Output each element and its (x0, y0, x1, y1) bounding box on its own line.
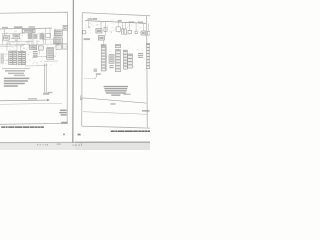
wire web horizontal runs (2, 32, 25, 34)
doc number block bottom right (60, 110, 67, 111)
connector P5 box (56, 45, 61, 49)
fuse block F1 cluster (28, 33, 33, 39)
terminal board TB1 pin list (33, 51, 38, 52)
wire bottom collect rail (2, 67, 30, 69)
wire destination label (28, 98, 37, 99)
relay K1 box (22, 29, 35, 33)
rail label 2 (92, 18, 97, 20)
AC PWR label (124, 94, 131, 95)
fine wire texture right diagram (85, 18, 147, 69)
note box N1 (63, 25, 67, 30)
caption: Figure 7. Wiring Diagram/Schematic (Sheet 6 of 9) (1, 126, 44, 127)
switch S1 box (4, 36, 10, 40)
wire stubs from bus (88, 21, 90, 29)
connector J14 pin column (146, 43, 150, 69)
switch S1 text (4, 37, 8, 39)
splice S2 marks (43, 93, 49, 95)
label above top rail 2 (14, 26, 23, 28)
wire number label (111, 103, 116, 104)
wire vertical run (106, 46, 108, 71)
terminal board TB1 text (30, 46, 35, 48)
relay K11 box (98, 36, 104, 40)
diagram area bottom rule (0, 102, 62, 105)
rail label 5 (138, 22, 143, 24)
capacitor C1 box (135, 31, 137, 34)
switch S10 box (83, 30, 86, 34)
connector J2 pin column (18, 51, 22, 65)
edge component box (147, 31, 150, 35)
note box N2 (54, 30, 62, 36)
long wire run across sheet bottom (81, 95, 147, 103)
right page border frame (82, 13, 150, 128)
bus wire, right diagram top rail (85, 21, 146, 24)
ground label (84, 38, 90, 40)
resistor R1 box (46, 33, 51, 37)
ground wire run (84, 78, 95, 80)
connector J0 half column (1, 53, 4, 64)
note text block lower left (4, 78, 30, 80)
resistor R12 box (128, 30, 132, 33)
circuit breaker CB1 text (14, 35, 19, 37)
label above top rail 1 (2, 27, 8, 28)
circuit breaker CB1 box (13, 34, 20, 39)
relay K3 cluster (40, 33, 45, 39)
rail label 3 (118, 20, 122, 22)
note box N3 (54, 38, 63, 44)
terminal board TB1 box (30, 45, 37, 49)
connector J12 label box (115, 44, 120, 47)
diagram area bottom rule right (83, 112, 147, 115)
connector J1 pin column (9, 51, 13, 65)
scan bed shadow band at page bottom (0, 143, 150, 150)
wire to sheet 8 with arrow (0, 99, 48, 102)
legend text block center (104, 86, 129, 87)
connector P1 pin column (13, 51, 17, 65)
left page border frame (0, 12, 67, 124)
connector P2 pin column (22, 51, 26, 65)
bus wire, left diagram top rail (0, 27, 52, 30)
fuse block F2 cluster (34, 34, 38, 39)
terminal strip TB10 box (141, 31, 146, 35)
wire label row 2 (8, 73, 24, 75)
relay K11 text (99, 37, 103, 39)
relay K1 text (24, 30, 34, 32)
circuit breaker CB10 box (104, 27, 107, 31)
connector J12 pin column (115, 50, 120, 72)
wire label row 3 (14, 75, 25, 76)
caption: Figure 7. Wiring Diagram/Schematic (Sheet 7 of 9) (111, 131, 150, 132)
connector J13 pin column (128, 54, 133, 68)
rail label 4 (129, 21, 135, 22)
junction box J3 (38, 46, 43, 50)
relay K13 box (124, 29, 126, 34)
page number 9 (63, 134, 64, 136)
page-edge debris marks (37, 144, 38, 145)
switch S12 box (116, 27, 120, 31)
connector P12 pin column (123, 50, 127, 69)
book spine gutter line (72, 0, 75, 143)
cable W2 designation text (138, 53, 143, 54)
rail label 1 (88, 18, 93, 20)
splice cluster (94, 69, 98, 73)
wire label row 1 (5, 70, 25, 72)
connector J10 label (101, 44, 107, 46)
label above top rail 3 (29, 26, 36, 27)
relay K10 box (96, 29, 102, 33)
relay K10 text (97, 30, 101, 32)
terminal strip TB10 text (142, 32, 145, 34)
terminal lug marks (48, 92, 53, 93)
relay K2 box (63, 44, 68, 49)
connector J10 pin column (101, 46, 105, 71)
wire web vertical runs (4, 29, 6, 36)
connector J11 box (109, 55, 114, 64)
wire long drop A (43, 63, 45, 92)
fine wire texture left diagram (1, 31, 58, 66)
doc number right page (142, 110, 150, 112)
relay K12 box (121, 29, 123, 34)
wire long drop B (45, 63, 47, 92)
connector J4 pin block (47, 48, 54, 60)
ground wire label (96, 73, 101, 75)
wire drop to connector band (102, 40, 104, 45)
page number 10 (78, 134, 81, 136)
connector J11 wire list (109, 65, 113, 66)
